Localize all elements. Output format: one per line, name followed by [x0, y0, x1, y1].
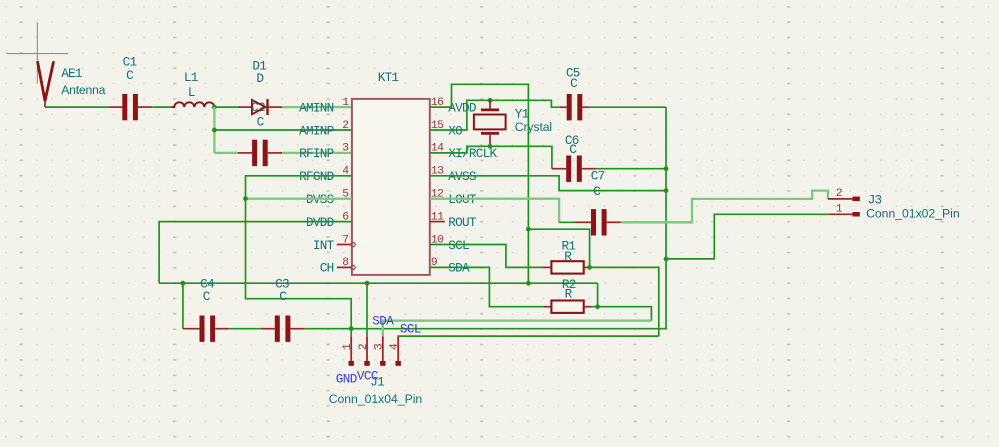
junction rail-J3	[664, 257, 669, 262]
svg-text:C: C	[569, 142, 577, 157]
svg-text:AMINP: AMINP	[299, 123, 333, 138]
wire LOUT pin 12	[430, 199, 559, 223]
svg-text:C: C	[203, 289, 211, 304]
wire AVDD pin 16	[430, 84, 529, 283]
wire VCC to J1 pin 2	[366, 283, 368, 336]
connector J3 pin 2 pad	[852, 197, 859, 202]
svg-text:3: 3	[374, 343, 386, 350]
capacitor C4 right lead	[215, 328, 229, 330]
resistor R1 right lead	[584, 266, 590, 268]
wire DVDD pin 6	[159, 222, 352, 284]
svg-text:KT1: KT1	[378, 70, 399, 85]
junction VCC-rail	[526, 281, 531, 286]
wire VCC row	[159, 282, 597, 284]
wire junction to C2	[214, 152, 237, 154]
svg-text:1: 1	[836, 203, 843, 215]
connector J1 pin 1 pad	[349, 361, 354, 366]
svg-text:CH: CH	[320, 261, 334, 276]
resistor R1 left lead	[543, 266, 551, 268]
connector J1 pin 4 line	[397, 336, 399, 361]
svg-text:C: C	[257, 114, 265, 129]
inductor L1	[171, 102, 214, 107]
wire LOUT to C7	[559, 221, 575, 223]
wire C4 top drop	[182, 283, 184, 329]
svg-text:Conn_01x02_Pin: Conn_01x02_Pin	[866, 207, 960, 221]
connector J3 pin 1 line	[829, 213, 852, 215]
svg-text:R: R	[564, 249, 572, 264]
svg-text:C: C	[570, 76, 578, 91]
capacitor C2 left lead	[238, 152, 252, 154]
junction R2 right	[595, 304, 600, 309]
svg-text:SDA: SDA	[372, 315, 394, 329]
diode D1 triangle	[252, 100, 266, 114]
wire D1 to AMINN pin 1	[282, 106, 352, 108]
wire C1 to L1	[152, 106, 171, 108]
junction DVSS	[243, 196, 248, 201]
capacitor C7	[591, 209, 607, 235]
junction rail-C6	[664, 166, 669, 171]
wire C2 to RFINP pin 3	[282, 152, 352, 154]
wire R2 right to VCC	[592, 283, 598, 307]
svg-text:J1: J1	[370, 375, 384, 390]
svg-text:Crystal: Crystal	[515, 120, 552, 134]
connector J1 pin 1 line	[350, 336, 352, 361]
junction VCC-J1pin2	[365, 281, 370, 286]
wire SCL label row	[398, 335, 659, 337]
resistor R1 body	[551, 261, 583, 273]
resistor R2 left lead	[543, 306, 551, 308]
IC U KT1 body	[352, 99, 430, 275]
junction crystal top	[488, 98, 493, 103]
wire AVSS pin 13	[430, 176, 666, 191]
wire C5 to AVSS rail	[589, 106, 666, 108]
svg-text:ROUT: ROUT	[448, 215, 477, 230]
connector J1 pin 3 line	[382, 336, 384, 361]
connector J3 pin 2 line	[828, 198, 853, 200]
wire C7 to J3 pin 2	[621, 191, 828, 223]
wire R2 to SDA label row	[598, 307, 652, 321]
wire rail to J3 pin 1	[666, 214, 829, 259]
junction AMINP branch	[212, 128, 217, 133]
svg-text:C: C	[279, 289, 287, 304]
capacitor C6	[566, 156, 582, 182]
antenna AE1 symbol	[38, 61, 54, 101]
capacitor C4	[200, 316, 216, 342]
svg-text:AE1: AE1	[61, 66, 82, 81]
wire XO pin 15	[430, 100, 560, 130]
wire rail to R1 right	[528, 229, 589, 267]
wire R1 to SCL label row	[590, 267, 659, 336]
svg-text:L: L	[188, 85, 195, 100]
pin 7 unconnected circle	[351, 242, 355, 246]
junction crystal bottom	[488, 144, 493, 149]
wire junction to D1 anode	[214, 106, 237, 108]
svg-text:C: C	[126, 68, 134, 83]
wire AMINP to pin 2	[214, 129, 352, 131]
svg-text:C7: C7	[591, 168, 605, 183]
capacitor C5 right lead	[582, 106, 589, 108]
capacitor C1 left lead	[109, 106, 122, 108]
capacitor C7 left lead	[576, 221, 592, 223]
svg-text:Conn_01x04_Pin: Conn_01x04_Pin	[329, 392, 423, 406]
svg-text:AVDD: AVDD	[448, 100, 476, 115]
capacitor C2 right lead	[268, 152, 283, 154]
svg-text:L1: L1	[184, 70, 198, 85]
wire C6 to AVSS rail	[595, 168, 666, 170]
svg-text:D: D	[256, 71, 263, 86]
capacitor C3	[275, 316, 291, 342]
svg-text:SCL: SCL	[400, 323, 421, 337]
capacitor C6 left lead	[552, 168, 566, 170]
capacitor C1	[122, 94, 138, 120]
pin 7 INT stub	[337, 244, 352, 246]
connector J1 pin 3 pad	[380, 361, 385, 366]
svg-text:3: 3	[342, 143, 349, 155]
connector J1 pin 2 pad	[364, 361, 369, 366]
wire C4 to C3	[229, 328, 261, 330]
junction AVDD rail to R1	[526, 227, 531, 232]
wire SDA pin 9	[430, 267, 544, 306]
capacitor C3 right lead	[290, 328, 304, 330]
svg-text:RFINP: RFINP	[299, 146, 333, 161]
wire SCL pin 10	[430, 245, 544, 268]
resistor R2 body	[551, 301, 583, 313]
wire SDA label row	[383, 321, 652, 337]
wire GND row	[305, 107, 666, 329]
diode D1 cathode bar	[266, 99, 268, 115]
wire GND to J1 pin 1	[350, 329, 352, 337]
svg-text:1: 1	[342, 97, 349, 109]
capacitor C5	[567, 94, 583, 120]
svg-text:INT: INT	[313, 238, 335, 253]
capacitor C1 right lead	[138, 106, 152, 108]
svg-text:Antenna: Antenna	[61, 83, 105, 97]
junction L1-D1 node	[212, 105, 217, 110]
diode D1 cathode lead	[268, 106, 283, 108]
capacitor C4 left lead	[183, 328, 200, 330]
capacitor C2	[252, 140, 268, 166]
connector J1 pin 4 pad	[396, 361, 401, 366]
capacitor C3 left lead	[261, 328, 275, 330]
junction GND-J1pin1	[349, 326, 354, 331]
cursor crosshair	[7, 23, 68, 84]
wire RFGND pin 4	[246, 176, 352, 329]
wire DVSS pin 5	[246, 198, 352, 200]
wire antenna to C1	[45, 106, 109, 108]
diode D1 anode lead	[238, 106, 252, 108]
wire junction down to RFINP row	[213, 107, 215, 153]
junction VCC-C4	[181, 281, 186, 286]
svg-text:2: 2	[836, 188, 843, 200]
svg-text:C: C	[593, 184, 601, 199]
svg-text:GND: GND	[336, 373, 357, 387]
capacitor C6 right lead	[582, 168, 595, 170]
wire XI/RCLK pin 14	[430, 146, 552, 168]
junction rail-AVSS	[664, 188, 669, 193]
svg-text:4: 4	[389, 343, 401, 350]
pin 8 CH stub	[337, 266, 352, 268]
svg-text:J3: J3	[868, 193, 882, 208]
capacitor C5 left lead	[560, 106, 567, 108]
svg-text:1: 1	[342, 343, 354, 350]
capacitor C7 right lead	[607, 221, 621, 223]
resistor R2 right lead	[584, 306, 592, 308]
svg-text:R: R	[565, 286, 573, 301]
svg-text:AMINN: AMINN	[299, 100, 333, 115]
pin 8 unconnected circle	[351, 265, 355, 269]
connector J1 pin 2 line	[366, 336, 368, 361]
svg-text:2: 2	[358, 343, 370, 350]
pin 11 ROUT stub	[430, 221, 445, 223]
svg-text:2: 2	[342, 120, 349, 132]
connector J3 pin 1 pad	[852, 212, 859, 217]
crystal Y1	[474, 100, 506, 146]
junction R1 right	[587, 265, 592, 270]
